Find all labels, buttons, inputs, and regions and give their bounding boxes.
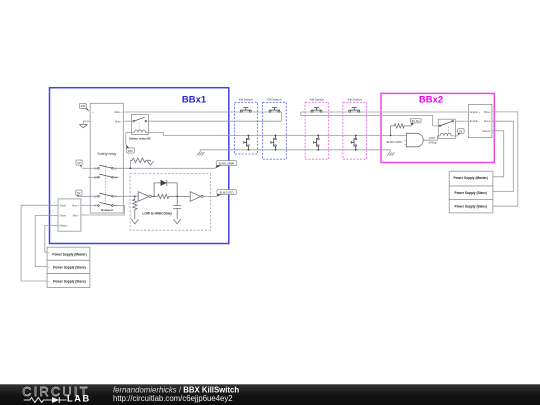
- power supply PS4 Master: [449, 171, 493, 186]
- kill switch SW1 button: [240, 108, 251, 113]
- wire J2 master to PS4: [492, 131, 504, 177]
- kill switch SW3 button: [311, 108, 322, 113]
- svg-text:ELMO STO: ELMO STO: [220, 190, 234, 194]
- label 1=OK 0=Stop: [429, 136, 438, 145]
- kill switch SW2 contact: [271, 135, 277, 151]
- wire chain2 to Enable+: [301, 111, 469, 113]
- svg-text:ELMO 24MP: ELMO 24MP: [219, 161, 235, 165]
- svg-text:Mon +: Mon +: [72, 203, 80, 207]
- net tag ELMO 24MP: [215, 161, 237, 169]
- svg-text:24V: 24V: [81, 104, 86, 108]
- svg-text:5V: 5V: [459, 129, 462, 133]
- resistor R3: [151, 194, 190, 198]
- svg-text:1=OK: 1=OK: [429, 136, 436, 140]
- wire J2 slave to PS5: [492, 121, 513, 191]
- svg-text:Mon -: Mon -: [73, 214, 80, 218]
- svg-text:Delayed: Delayed: [101, 208, 113, 212]
- svg-text:Power Supply (Slave): Power Supply (Slave): [53, 266, 85, 270]
- safety relay contact 13-14: [94, 165, 118, 170]
- svg-text:Kill Switch: Kill Switch: [239, 97, 253, 101]
- wire J1 master to PS1: [45, 226, 58, 253]
- svg-text:Power Supply (Slave): Power Supply (Slave): [454, 191, 486, 195]
- net tag 5V Src: [410, 118, 421, 126]
- wire contact 33 left: [77, 195, 97, 197]
- kill switch SW4 button: [349, 108, 360, 113]
- svg-text:Slave: Slave: [60, 214, 67, 218]
- wire Mon- return: [81, 206, 125, 216]
- svg-text:Power Supply (Master): Power Supply (Master): [454, 176, 488, 180]
- capacitor C1: [173, 196, 181, 220]
- ground arrow at safety relay -: [79, 124, 87, 127]
- svg-text:Power Supply (Slave): Power Supply (Slave): [53, 279, 85, 283]
- safety relay contact 33-34: [94, 193, 118, 198]
- wire contact 34 to delay input: [113, 195, 138, 197]
- connector J2 enable box: [468, 104, 492, 137]
- wire Mon+ to contact 43: [81, 205, 98, 207]
- inverter U3: [138, 192, 151, 202]
- svg-text:5V: 5V: [77, 161, 80, 165]
- svg-text:5V Src: 5V Src: [412, 119, 420, 123]
- wire Main+ to kill switch chain1: [123, 112, 281, 121]
- wire J2 slave to PS6: [492, 112, 518, 206]
- safety relay contact 23-24: [88, 174, 119, 179]
- svg-text:Enable -: Enable -: [470, 119, 480, 123]
- connector J1 monitor box: [58, 199, 81, 231]
- kill switch SW2 button: [269, 108, 280, 113]
- kill switch SW2 enclosure: [263, 97, 287, 159]
- wire safety relay - to ground: [83, 121, 90, 124]
- wire net ELMO GPIO row B: [148, 133, 406, 136]
- inverter U4: [190, 192, 203, 202]
- wire contact 14 to ELMO 24MP tag: [113, 160, 215, 169]
- svg-text:Kill Switch: Kill Switch: [348, 97, 362, 101]
- kill switch SW4 contact: [351, 135, 356, 151]
- svg-text:http://circuitlab.com/c6ejjp6u: http://circuitlab.com/c6ejjp6ue4ey2: [113, 394, 233, 403]
- kill switch SW3 contact: [314, 135, 319, 151]
- safety relay U2 body: [90, 103, 123, 213]
- ground arrow at R1: [147, 160, 153, 165]
- AND gate U5: [405, 133, 424, 147]
- wire chain2 loop to relay K3: [301, 112, 439, 126]
- safety relay linkage: [105, 165, 107, 204]
- svg-text:Kill Switch: Kill Switch: [310, 97, 324, 101]
- wire NC coil left to 24V tag: [126, 133, 132, 144]
- 5V tag at contact 13: [76, 160, 83, 168]
- power supply PS6 Slave: [449, 199, 493, 213]
- svg-text:ELMO GPIO: ELMO GPIO: [387, 140, 404, 144]
- resistor R1: [130, 158, 150, 163]
- svg-text:Safety relay NC: Safety relay NC: [129, 137, 152, 141]
- wire delay output: [203, 195, 217, 197]
- svg-text:LAB: LAB: [67, 393, 91, 403]
- kill switch SW1 contact: [244, 135, 250, 151]
- svg-text:0=Stop: 0=Stop: [429, 141, 438, 145]
- wire U5 output to relay coil: [423, 136, 438, 140]
- svg-text:Master: Master: [60, 224, 68, 228]
- svg-text:BBx1: BBx1: [182, 94, 207, 105]
- svg-text:Safety relay: Safety relay: [97, 152, 116, 156]
- wire K3 switch to Enable-: [455, 120, 468, 122]
- power supply PS3 Slave: [47, 274, 90, 288]
- wire contact 13 left: [82, 167, 97, 169]
- svg-text:Master: Master: [482, 129, 490, 133]
- svg-text:Main +: Main +: [114, 110, 122, 114]
- 5V tag at contact 33: [76, 190, 82, 196]
- svg-text:Main -: Main -: [115, 119, 122, 123]
- resistor R4: [390, 124, 411, 137]
- svg-text:Slave: Slave: [484, 119, 491, 123]
- svg-text:5V: 5V: [77, 191, 80, 195]
- power supply PS5 Slave: [449, 186, 493, 199]
- svg-text:Slave: Slave: [484, 110, 491, 114]
- svg-text:24V: 24V: [128, 149, 133, 153]
- footer logo resistor-diode: [24, 397, 67, 403]
- relay K3: [438, 119, 455, 138]
- svg-text:LOW to HIGH Delay: LOW to HIGH Delay: [142, 212, 172, 216]
- relay K2 Safety relay NC: [129, 114, 152, 140]
- svg-text:Enable +: Enable +: [470, 110, 481, 114]
- ground arrow at C1: [174, 219, 181, 224]
- 24V supply tag at NC coil: [126, 144, 135, 153]
- delay block boundary: [130, 174, 211, 231]
- wire NC return from kill switches: [148, 120, 281, 122]
- BBx1 boundary: [50, 88, 229, 244]
- svg-text:Power Supply (Master): Power Supply (Master): [52, 252, 86, 256]
- 24V supply tag at safety relay +: [79, 104, 89, 112]
- power supply PS2 Slave: [47, 260, 90, 273]
- footer bar: [0, 384, 540, 405]
- safety relay delayed contact 43-44: [94, 202, 118, 207]
- 5V tag at K3 coil: [455, 129, 464, 136]
- svg-text:Power Supply (Slave): Power Supply (Slave): [454, 204, 486, 208]
- wire Main- to relay NC: [123, 120, 133, 122]
- wire J1 slave to PS3: [21, 205, 58, 281]
- net tag ELMO STO: [217, 190, 237, 197]
- ground at row C left: [197, 150, 205, 156]
- power supply PS1 Master: [47, 247, 90, 260]
- kill switch SW3 enclosure: [305, 97, 329, 159]
- svg-text:BBx2: BBx2: [419, 94, 443, 105]
- ground arrow at R2: [131, 219, 138, 224]
- ground at BBx2: [387, 150, 395, 156]
- svg-text:Slave: Slave: [60, 203, 67, 207]
- svg-text:Kill Switch: Kill Switch: [267, 97, 281, 101]
- wire ground row C: [200, 149, 390, 151]
- BBx2 boundary: [381, 93, 494, 162]
- resistor R2 to ground: [133, 195, 137, 219]
- kill switch SW4 enclosure: [343, 97, 367, 159]
- wire J1 slave to PS2: [35, 216, 58, 267]
- svg-text:-: -: [92, 120, 93, 123]
- kill switch SW1 enclosure: [234, 97, 257, 154]
- diode D1 bypass: [153, 180, 177, 198]
